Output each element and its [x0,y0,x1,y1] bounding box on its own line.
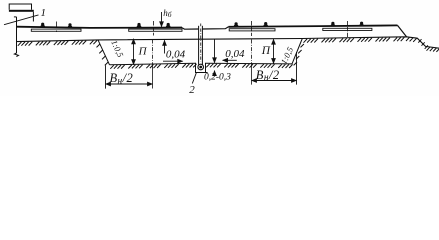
top-left box symbol [9,4,34,22]
ground hatching left [18,40,97,45]
dimension П left [133,39,135,65]
drain shaft walls [199,26,203,65]
left cut edge of section [14,17,19,57]
dimension 0,2-0,3 lower arrow [214,71,216,76]
swale line over trench left [182,28,199,30]
rail 6 [263,22,268,27]
svg-text:П: П [261,45,271,57]
svg-text:0,2-0,3: 0,2-0,3 [204,72,231,82]
rail 3 [136,23,141,28]
right wall hatching [294,44,304,65]
trench floor hatching right [206,64,292,68]
dimension h_b upper arrow [161,12,163,27]
dimension П right [273,39,275,63]
drain pipe circle [198,64,204,70]
rail 8 [359,22,364,27]
rail 4 [166,23,171,28]
svg-text:0,04: 0,04 [225,48,245,60]
dimension 0,2-0,3 upper arrow [214,39,216,62]
sleeper track4 [323,28,372,30]
swale line over trench right [203,27,229,29]
drain pipe box [196,63,208,73]
sleeper track3 [229,29,275,31]
trench floor left [110,63,196,65]
trench left wall [98,40,110,65]
rail 1 [40,23,45,28]
svg-text:1: 1 [41,7,47,19]
slope arrow right [223,59,237,61]
dimension Bн/2 left [106,65,153,88]
ground hatching right [304,37,417,42]
dimension Bн/2 right [252,52,297,85]
trench right wall [292,39,302,64]
svg-text:2: 2 [189,84,195,96]
terrain slope hatching [418,39,428,49]
svg-text:hб: hб [163,8,172,19]
rail 7 [330,22,335,27]
svg-text:П: П [138,46,148,58]
sleeper track1 [31,29,81,31]
leader line to label 2 [192,73,196,84]
svg-text:0,04: 0,04 [166,49,186,61]
subgrade ground line [17,37,439,48]
ballast top line right [229,25,398,26]
left wall hatching [97,44,109,65]
track axis centerlines [57,21,348,89]
trench floor hatching left [110,64,196,69]
leader line to label 1 [4,15,39,25]
rail 2 [67,23,72,28]
ballast shoulder slope right [398,25,407,36]
dimension h_b lower arrow [164,40,166,53]
slope arrow left [163,60,183,62]
trench floor right [205,62,292,65]
rail 5 [233,22,238,27]
lower ground hatching [427,47,439,52]
ballast top line left [17,27,183,28]
sleeper track2 [129,29,182,31]
